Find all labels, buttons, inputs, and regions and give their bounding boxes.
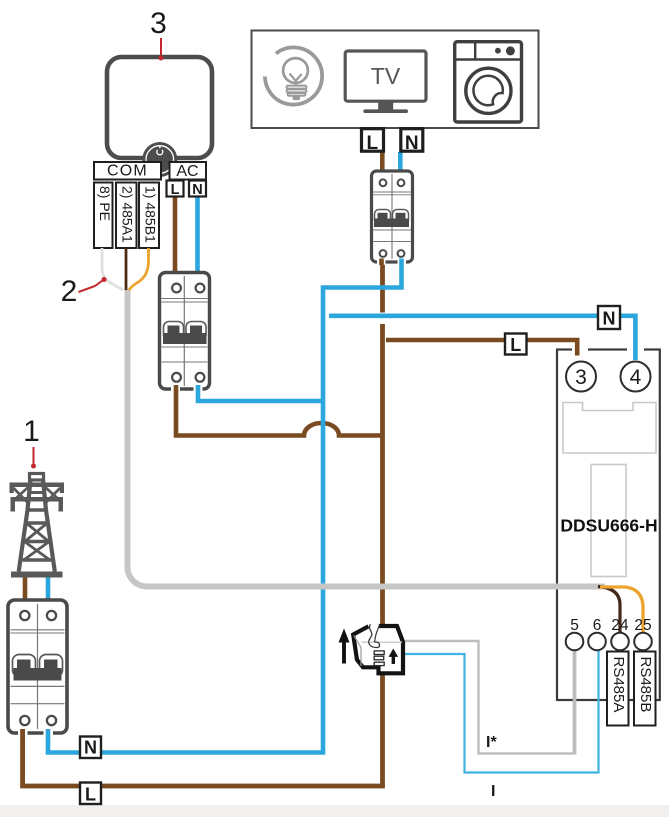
wire L brown from tower left leg to grid breaker	[23, 576, 28, 602]
svg-text:3: 3	[150, 7, 167, 40]
svg-text:DDSU666-H: DDSU666-H	[560, 516, 657, 536]
meter pin 25	[634, 617, 652, 650]
household loads box	[252, 31, 539, 129]
current transformer CT on L wire	[353, 624, 403, 673]
wire N blue branch to meter terminal 4	[329, 314, 635, 361]
meter terminal 3 circle	[566, 362, 596, 392]
CT direction arrow	[339, 629, 350, 664]
meter pin 5	[566, 617, 584, 650]
svg-text:RS485B: RS485B	[637, 657, 654, 713]
N label box bottom left	[80, 737, 101, 759]
wire RS485B orange to meter pin 25	[600, 587, 643, 633]
circuit breaker QF3 (grid)	[8, 600, 67, 737]
wire PE white from COM terminal 8	[102, 248, 123, 290]
wire I* gray from CT to meter pin 5	[402, 641, 575, 754]
light bulb icon	[253, 36, 333, 116]
wire N blue branch to meter terminal 4 white backing	[378, 313, 386, 325]
svg-text:1) 485B1: 1) 485B1	[143, 186, 159, 243]
L label box bottom left	[80, 783, 101, 805]
item number 2 with red pointer	[61, 275, 107, 308]
wire N blue from inverter AC N to AC breaker	[195, 196, 200, 274]
wire I light blue from CT to meter pin 6	[402, 650, 599, 773]
AC terminal L	[167, 181, 184, 199]
svg-text:24: 24	[611, 617, 629, 634]
wire RS485A dark brown to meter pin 24	[598, 587, 620, 633]
COM port header	[94, 162, 161, 180]
COM signal cable bundle (gray)	[128, 289, 606, 587]
N label box near meter	[598, 306, 620, 329]
bottom gray strip	[0, 805, 669, 817]
AC port header	[170, 162, 207, 180]
svg-text:L: L	[366, 133, 378, 154]
wire L brown from inverter AC L to AC breaker	[173, 196, 178, 274]
circuit breaker QF2 (backup/AC side)	[160, 273, 210, 393]
svg-text:N: N	[603, 309, 616, 329]
svg-text:I*: I*	[486, 734, 497, 751]
wire N blue from loads N label to load breaker	[398, 152, 403, 173]
svg-text:6: 6	[593, 617, 602, 634]
meter pin 6	[588, 617, 606, 650]
TV icon	[345, 51, 426, 113]
wire L brown main vertical from load breaker down through CT to bottom and grid breaker	[23, 261, 383, 786]
svg-text:L: L	[510, 335, 521, 355]
item number 3 with red pointer	[150, 7, 167, 61]
svg-text:1: 1	[23, 415, 40, 448]
svg-text:8) PE: 8) PE	[97, 186, 113, 221]
AC terminal N	[189, 181, 206, 199]
item number 1 with red pointer	[23, 415, 40, 469]
loads N label box	[401, 129, 423, 154]
meter inner top silhouette	[563, 403, 656, 454]
svg-text:N: N	[84, 738, 97, 758]
meter top border gaps for wire entries	[572, 347, 588, 352]
circuit breaker QF1 (loads)	[372, 171, 413, 265]
wire 485B1 orange from COM terminal 1	[129, 248, 149, 290]
inverter unit (item 3)	[107, 57, 212, 158]
COM terminal 2) 485A1	[116, 183, 137, 249]
wire L brown from loads L label to load breaker	[380, 152, 385, 173]
svg-text:2: 2	[61, 275, 78, 308]
washing machine icon	[455, 42, 522, 122]
svg-text:2) 485A1: 2) 485A1	[120, 186, 136, 243]
svg-text:TV: TV	[371, 63, 401, 89]
L label box near meter	[505, 334, 527, 356]
CT cable flap detail	[374, 625, 379, 642]
transmission tower (grid, item 1)	[10, 474, 65, 578]
meter inner middle rectangle	[591, 465, 626, 577]
wire I* gray stub pin 5	[573, 650, 577, 755]
power meter DDSU666-H outline	[557, 350, 660, 701]
wire N blue from tower right leg to grid breaker	[46, 576, 51, 602]
svg-text:COM: COM	[107, 163, 148, 180]
svg-text:I: I	[491, 783, 495, 800]
meter terminal 4 circle	[621, 362, 651, 392]
RS485A label box	[607, 652, 629, 726]
COM terminal 1) 485B1	[139, 183, 159, 249]
svg-text:3: 3	[575, 366, 587, 389]
wire N blue from AC breaker joining main N vertical	[198, 388, 322, 401]
RS485B label box	[634, 652, 656, 726]
wire L brown branch to meter terminal 3	[386, 340, 577, 356]
meter pin 24	[611, 617, 629, 650]
svg-text:N: N	[192, 182, 202, 198]
wire N blue main run from load breaker down to grid breaker	[48, 261, 402, 753]
inverter indicator dome	[142, 142, 177, 177]
svg-text:4: 4	[630, 366, 642, 389]
svg-text:L: L	[171, 182, 180, 198]
COM terminal 8) PE	[94, 183, 113, 249]
loads L label box	[362, 129, 384, 154]
wire 485A1 dark brown from COM terminal 2	[125, 248, 128, 290]
svg-text:5: 5	[570, 617, 579, 634]
svg-text:RS485A: RS485A	[610, 657, 627, 713]
wire L brown below AC breaker with hop over N wire	[176, 388, 382, 436]
svg-text:25: 25	[634, 617, 651, 634]
svg-text:L: L	[85, 785, 96, 805]
svg-text:AC: AC	[176, 163, 198, 180]
svg-text:N: N	[405, 133, 419, 154]
